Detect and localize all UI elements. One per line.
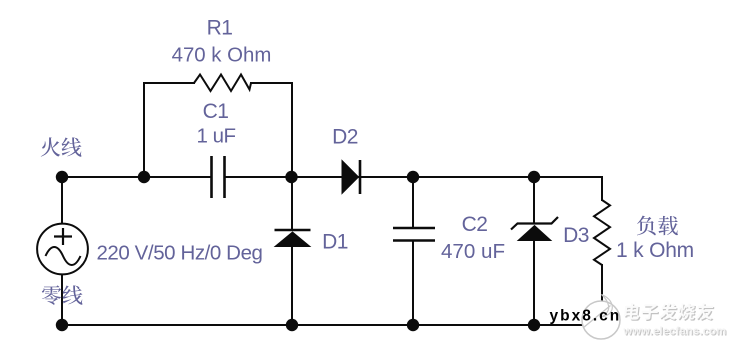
wire top rail right segment (C1 right plate to top-right corner): [226, 176, 603, 178]
diode D2 cathode bar: [359, 160, 362, 194]
load resistor zigzag: [594, 200, 610, 265]
node C1/D1/D2 junction: [285, 171, 297, 183]
wire D1 top lead: [291, 177, 293, 231]
wire source bottom lead: [61, 274, 63, 325]
wire D3 bottom lead: [533, 240, 535, 325]
svg-text:R1: R1: [207, 17, 233, 40]
wire R1 right lead: [250, 82, 293, 84]
zener diode D3 triangle: [518, 226, 551, 241]
wire source top lead: [61, 177, 63, 224]
wire top rail left segment (live node to C1 left plate): [62, 176, 211, 178]
AC source sine wave: [46, 247, 81, 265]
wire R1 branch right riser: [291, 82, 293, 177]
svg-text:470 uF: 470 uF: [441, 240, 505, 263]
capacitor C2 plates: [393, 227, 435, 230]
watermark text dianzifashaoyou: [624, 303, 716, 321]
svg-text:www.elecfans.com: www.elecfans.com: [623, 326, 727, 338]
node C2/D3 top junction: [528, 171, 540, 183]
watermark logo circle: [582, 301, 620, 339]
svg-text:470 k Ohm: 470 k Ohm: [172, 45, 272, 67]
resistor R1 zigzag: [194, 75, 251, 92]
wire bottom rail (neutral): [62, 324, 602, 326]
node C2 bottom junction: [407, 319, 419, 331]
svg-text:ybx8.cn: ybx8.cn: [550, 308, 622, 325]
node R1/C1 left junction: [138, 171, 150, 183]
node D2/C2 junction: [407, 171, 419, 183]
node live input junction: [56, 171, 68, 183]
label load name fuzai: [637, 216, 656, 236]
wire D1 bottom lead: [291, 243, 293, 325]
svg-text:1 uF: 1 uF: [196, 125, 235, 148]
wire R1 branch left riser: [143, 82, 145, 177]
wire D3 top lead: [533, 177, 535, 224]
svg-text:D1: D1: [322, 231, 348, 254]
node neutral input junction: [56, 319, 68, 331]
node D3 bottom junction: [528, 319, 540, 331]
wire C2 bottom lead: [412, 240, 414, 325]
capacitor C1 plates: [210, 156, 213, 198]
svg-text:1 k Ohm: 1 k Ohm: [616, 239, 694, 262]
svg-text:D3: D3: [563, 224, 589, 247]
diode D2 triangle: [342, 161, 359, 194]
wire R1 left lead: [143, 82, 195, 84]
zener diode D3 cathode bar with bent ends: [511, 217, 558, 230]
node D1 bottom junction: [286, 319, 298, 331]
svg-text:C2: C2: [462, 213, 488, 236]
svg-text:220 V/50 Hz/0 Deg: 220 V/50 Hz/0 Deg: [96, 242, 262, 265]
AC source V1 circle: [37, 224, 88, 275]
wire load resistor bottom lead: [601, 264, 603, 326]
svg-text:C1: C1: [203, 100, 229, 123]
wire top-right corner down to load resistor: [601, 176, 603, 201]
wire C2 top lead: [412, 177, 414, 229]
net label lingxian (neutral wire): [42, 285, 61, 304]
AC source plus sign: [54, 235, 72, 237]
watermark logo swoosh: [602, 295, 613, 317]
diode D1 triangle: [275, 232, 310, 247]
net label huoxian (live wire): [41, 137, 60, 156]
diode D1 cathode bar: [275, 229, 311, 232]
svg-text:D2: D2: [332, 126, 358, 149]
